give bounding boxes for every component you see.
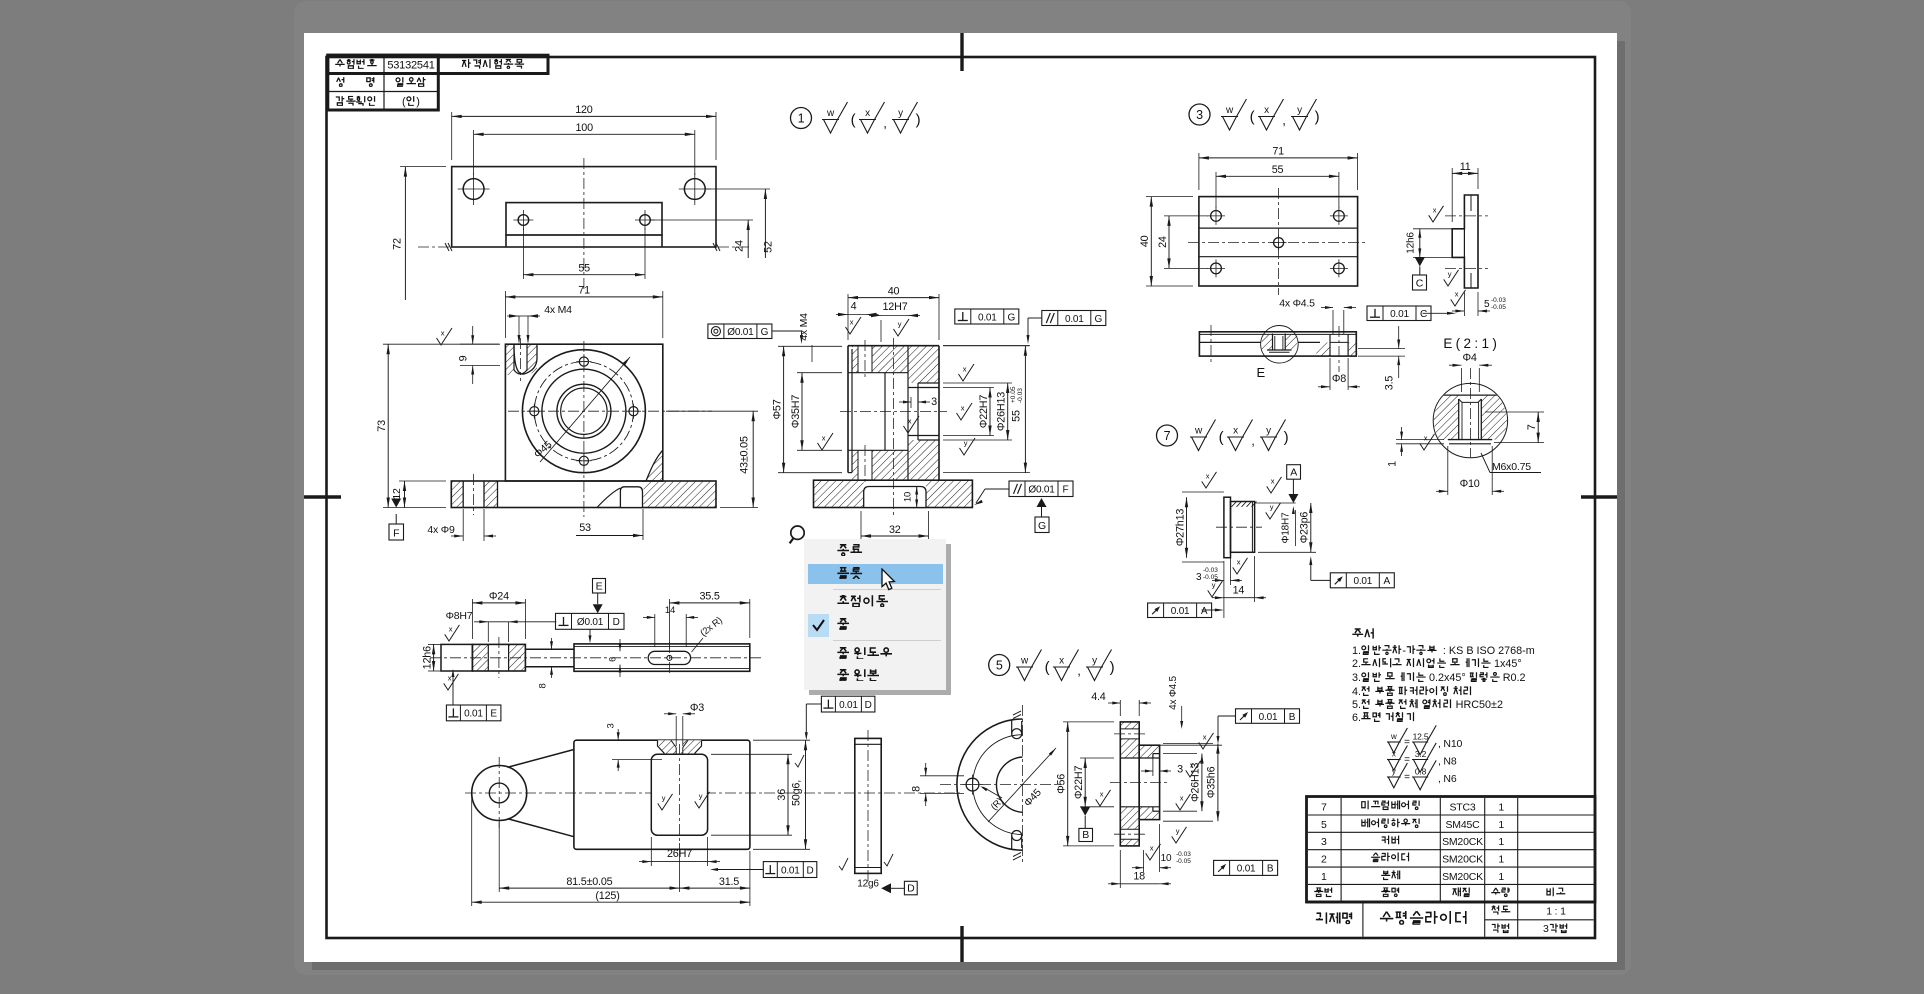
svg-text:11: 11 xyxy=(1460,161,1471,173)
svg-text:120: 120 xyxy=(575,104,593,116)
svg-text:x: x xyxy=(850,318,854,327)
svg-text:-0.05: -0.05 xyxy=(1203,574,1218,581)
svg-text:Φ8: Φ8 xyxy=(1332,373,1346,385)
svg-text:w: w xyxy=(826,108,835,119)
svg-text:0.01: 0.01 xyxy=(1353,576,1372,587)
svg-text:1: 1 xyxy=(1498,871,1504,883)
svg-text:y: y xyxy=(1176,827,1180,836)
svg-text:100: 100 xyxy=(575,122,593,134)
balloon 5 roughness note xyxy=(989,650,1115,681)
svg-text:E: E xyxy=(596,581,603,593)
notes roughness symbols xyxy=(1387,725,1462,789)
svg-text:C: C xyxy=(1416,278,1424,290)
view 7 bushing xyxy=(1148,465,1395,618)
mouse cursor xyxy=(880,568,900,594)
svg-text:4x M4: 4x M4 xyxy=(544,304,572,316)
svg-text:8: 8 xyxy=(538,683,549,688)
svg-text:F: F xyxy=(1063,485,1069,496)
svg-text:73: 73 xyxy=(376,420,388,432)
slider pin side view xyxy=(839,730,917,895)
context menu popup xyxy=(804,539,946,690)
svg-text:9: 9 xyxy=(458,355,470,361)
svg-text:Φ10: Φ10 xyxy=(1460,478,1480,490)
svg-text:C: C xyxy=(1420,309,1427,320)
svg-text:1: 1 xyxy=(1387,461,1399,467)
svg-text:B: B xyxy=(1267,864,1274,875)
svg-text:0.01: 0.01 xyxy=(1259,712,1278,723)
svg-text:12: 12 xyxy=(391,488,403,500)
svg-text:): ) xyxy=(1110,659,1115,676)
svg-text:+0.05: +0.05 xyxy=(1010,386,1017,403)
title block table xyxy=(328,55,548,73)
svg-text:3.5: 3.5 xyxy=(1384,376,1396,391)
svg-text:Φ23p6: Φ23p6 xyxy=(1299,512,1311,544)
detail E circle 2:1 xyxy=(1387,336,1545,495)
notes (korean) xyxy=(1352,628,1376,641)
svg-text:0.01: 0.01 xyxy=(1065,314,1084,325)
svg-text:36: 36 xyxy=(776,789,788,801)
view 3 cover section bar xyxy=(1199,298,1405,391)
svg-text:x: x xyxy=(1150,844,1154,853)
svg-text:Φ22H7: Φ22H7 xyxy=(978,395,990,429)
svg-text:Φ26H13: Φ26H13 xyxy=(996,392,1008,431)
section view housing xyxy=(814,338,973,515)
svg-text:(: ( xyxy=(1219,429,1224,446)
svg-text:24: 24 xyxy=(1157,236,1169,248)
svg-text:x: x xyxy=(1203,733,1207,742)
svg-text:w: w xyxy=(1390,732,1397,741)
svg-text:7: 7 xyxy=(1526,424,1538,430)
svg-text:4x Φ4.5: 4x Φ4.5 xyxy=(1279,298,1315,310)
svg-text:G: G xyxy=(1038,520,1046,532)
svg-text:0.01: 0.01 xyxy=(1237,864,1256,875)
svg-text:x: x xyxy=(1233,426,1238,437)
svg-text:3: 3 xyxy=(931,396,937,408)
svg-text:y: y xyxy=(898,320,902,329)
svg-text:7: 7 xyxy=(1164,429,1171,443)
view 5 cap section xyxy=(1056,675,1300,888)
svg-text:12g6: 12g6 xyxy=(857,879,879,890)
svg-text:0.01: 0.01 xyxy=(464,709,483,720)
svg-text:A: A xyxy=(1290,467,1297,479)
svg-text:71: 71 xyxy=(578,285,590,297)
svg-text:-0.05: -0.05 xyxy=(1491,304,1506,311)
svg-text:12h6: 12h6 xyxy=(1406,232,1417,254)
svg-text:40: 40 xyxy=(1139,235,1151,247)
svg-text:35.5: 35.5 xyxy=(699,591,719,603)
svg-text:53: 53 xyxy=(579,522,591,534)
slider shaft view xyxy=(421,579,762,721)
svg-text:1: 1 xyxy=(1321,871,1327,883)
svg-text:x: x xyxy=(865,108,870,119)
svg-text:E: E xyxy=(1256,365,1265,380)
svg-text:x: x xyxy=(908,417,912,426)
view 1 base plate top view xyxy=(392,104,775,300)
svg-text:x: x xyxy=(449,625,453,634)
svg-text:): ) xyxy=(1284,429,1289,446)
front view bearing housing xyxy=(243,285,758,541)
crop mark bottom xyxy=(960,926,963,962)
svg-text:y: y xyxy=(1297,105,1302,116)
svg-text:14: 14 xyxy=(665,605,675,616)
svg-text:G: G xyxy=(1095,314,1103,325)
svg-text:x: x xyxy=(822,434,826,443)
svg-text:0.01: 0.01 xyxy=(1171,606,1190,617)
svg-text:Φ35h6: Φ35h6 xyxy=(1206,766,1218,798)
svg-text:3: 3 xyxy=(1321,836,1327,848)
roughness note 1 xyxy=(791,102,921,133)
paper halo xyxy=(294,1,1631,975)
svg-text:y: y xyxy=(1392,767,1396,776)
svg-text:Φ57: Φ57 xyxy=(771,399,783,419)
svg-text:F: F xyxy=(393,528,399,540)
svg-text:3: 3 xyxy=(1196,572,1202,583)
svg-text:0.01: 0.01 xyxy=(1390,309,1409,320)
svg-text:A: A xyxy=(1384,576,1391,587)
svg-text:Φ8H7: Φ8H7 xyxy=(446,610,473,622)
view 5 cap half view xyxy=(911,705,1063,865)
svg-text:A: A xyxy=(1201,606,1208,617)
svg-text:y: y xyxy=(699,792,703,801)
zoom magnifier icon xyxy=(790,526,805,543)
svg-text:31.5: 31.5 xyxy=(719,876,739,888)
svg-text:-0.03: -0.03 xyxy=(1491,297,1506,304)
svg-text:D: D xyxy=(907,882,915,894)
svg-text:4x Φ9: 4x Φ9 xyxy=(427,524,455,536)
svg-text:Ø0.01: Ø0.01 xyxy=(727,327,754,338)
svg-text:3: 3 xyxy=(1196,108,1203,122)
svg-text:SM45C: SM45C xyxy=(1445,819,1480,831)
svg-text:-0.03: -0.03 xyxy=(1203,567,1218,574)
svg-text:(: ( xyxy=(1045,659,1050,676)
svg-text:D: D xyxy=(613,617,620,628)
svg-text:24: 24 xyxy=(734,240,746,252)
svg-text:x: x xyxy=(1271,477,1275,486)
svg-text:52: 52 xyxy=(763,241,775,253)
svg-text:B: B xyxy=(1289,712,1296,723)
svg-text:x: x xyxy=(1100,790,1104,799)
svg-text:): ) xyxy=(1315,109,1320,126)
svg-text:,: , xyxy=(1251,433,1254,448)
svg-text:, N6: , N6 xyxy=(1438,773,1457,785)
slider body view xyxy=(465,696,960,906)
svg-text:1: 1 xyxy=(798,112,805,126)
svg-text:x: x xyxy=(448,674,452,683)
svg-text:x: x xyxy=(963,365,967,374)
paper shadow xyxy=(312,41,1625,970)
svg-text:10: 10 xyxy=(903,492,914,502)
svg-text:Φ4: Φ4 xyxy=(1462,352,1476,364)
svg-text:4.4: 4.4 xyxy=(1091,691,1106,703)
crop mark right xyxy=(1581,495,1617,498)
crop mark left xyxy=(304,495,341,498)
svg-text:1: 1 xyxy=(1498,801,1504,813)
svg-text:12h6: 12h6 xyxy=(421,646,433,669)
svg-text:32: 32 xyxy=(889,524,901,536)
svg-text:y: y xyxy=(1266,426,1271,437)
svg-text:40: 40 xyxy=(888,285,900,297)
svg-text:71: 71 xyxy=(1272,146,1284,158)
svg-text:G: G xyxy=(1008,312,1016,323)
svg-text:Φ18H7: Φ18H7 xyxy=(1281,512,1292,544)
svg-text:0.01: 0.01 xyxy=(781,865,800,876)
svg-text:18: 18 xyxy=(1133,870,1145,882)
svg-text:y: y xyxy=(1092,656,1097,667)
svg-text:81.5±0.05: 81.5±0.05 xyxy=(566,876,612,888)
svg-text:5: 5 xyxy=(1321,819,1327,831)
svg-text:14: 14 xyxy=(1233,584,1245,596)
svg-text:Φ27h13: Φ27h13 xyxy=(1174,509,1186,547)
svg-text:3: 3 xyxy=(1177,764,1183,776)
border frame xyxy=(327,57,1596,938)
svg-text:4x M4: 4x M4 xyxy=(798,313,810,341)
svg-text:x: x xyxy=(1392,750,1396,759)
parts list table xyxy=(1307,797,1596,937)
svg-text:): ) xyxy=(916,112,921,129)
svg-text:x: x xyxy=(1059,656,1064,667)
title block labels xyxy=(335,59,377,71)
section view dims xyxy=(771,285,1105,541)
svg-text:, N8: , N8 xyxy=(1438,756,1457,768)
svg-text:12.5: 12.5 xyxy=(1413,732,1429,742)
svg-text:,: , xyxy=(1282,113,1285,128)
svg-text:55: 55 xyxy=(1011,410,1023,422)
svg-text:1: 1 xyxy=(1498,819,1504,831)
svg-text:12H7: 12H7 xyxy=(882,301,907,313)
svg-text:Φ3: Φ3 xyxy=(690,702,704,714)
svg-text:y: y xyxy=(662,794,666,803)
parts table labels xyxy=(1361,800,1421,811)
svg-text:4: 4 xyxy=(851,301,857,313)
svg-text:STC3: STC3 xyxy=(1449,801,1475,813)
svg-text:0.01: 0.01 xyxy=(978,312,997,323)
svg-text:7: 7 xyxy=(1321,801,1327,813)
svg-text:x: x xyxy=(1264,105,1269,116)
svg-text:B: B xyxy=(1082,829,1089,841)
svg-text:-0.03: -0.03 xyxy=(1017,388,1024,403)
svg-text:43±0.05: 43±0.05 xyxy=(739,436,751,474)
svg-text:D: D xyxy=(806,865,813,876)
svg-text:SM20CK: SM20CK xyxy=(1442,836,1483,848)
svg-text:1: 1 xyxy=(1498,854,1504,866)
svg-text:,: , xyxy=(1077,663,1080,678)
svg-text:x: x xyxy=(1190,761,1194,770)
svg-text:Ø0.01: Ø0.01 xyxy=(577,617,604,628)
svg-text:3.2: 3.2 xyxy=(1415,749,1427,759)
svg-text:6: 6 xyxy=(608,657,618,662)
svg-text:y: y xyxy=(1212,581,1216,590)
svg-text:x: x xyxy=(1455,290,1459,299)
svg-text:x: x xyxy=(1424,434,1428,443)
svg-text:4x Φ4.5: 4x Φ4.5 xyxy=(1168,675,1179,709)
svg-text:D: D xyxy=(865,700,872,711)
svg-text:w: w xyxy=(1194,426,1203,437)
svg-text:Φ35H7: Φ35H7 xyxy=(790,395,802,429)
svg-text:5: 5 xyxy=(996,659,1003,673)
svg-text:0.01: 0.01 xyxy=(839,700,858,711)
svg-text:55: 55 xyxy=(578,263,590,275)
svg-text:w: w xyxy=(1225,105,1234,116)
svg-text:x: x xyxy=(1206,472,1210,481)
crop mark top xyxy=(960,33,963,71)
svg-text:E ( 2 : 1 ): E ( 2 : 1 ) xyxy=(1443,336,1496,351)
svg-text:1: 1 xyxy=(1498,836,1504,848)
view 3 cover side view xyxy=(1367,161,1506,320)
svg-text:x: x xyxy=(1433,206,1437,215)
svg-text:,: , xyxy=(883,116,886,131)
svg-text:SM20CK: SM20CK xyxy=(1442,871,1483,883)
svg-text:Φ24: Φ24 xyxy=(489,591,509,603)
svg-text:y: y xyxy=(1448,270,1452,279)
svg-text:(: ( xyxy=(851,112,856,129)
view 3 cover top view xyxy=(1139,146,1368,295)
svg-text:, N10: , N10 xyxy=(1438,738,1462,750)
svg-text:E: E xyxy=(490,709,497,720)
svg-text:-0.03: -0.03 xyxy=(1176,851,1191,858)
svg-text:M6x0.75: M6x0.75 xyxy=(1492,461,1531,473)
svg-text:53132541: 53132541 xyxy=(387,60,434,72)
svg-text:y: y xyxy=(1270,503,1274,512)
svg-text:5: 5 xyxy=(1484,299,1490,310)
svg-text:y: y xyxy=(964,439,968,448)
concentricity frame G xyxy=(708,324,803,344)
svg-text:0.8: 0.8 xyxy=(1415,767,1427,777)
svg-text:55: 55 xyxy=(1272,164,1284,176)
svg-text:Φ56: Φ56 xyxy=(1056,774,1068,794)
svg-text:Φ22H7: Φ22H7 xyxy=(1073,765,1085,799)
svg-text:x: x xyxy=(441,329,445,338)
svg-text:3: 3 xyxy=(606,723,617,728)
svg-text:x: x xyxy=(1237,558,1241,567)
balloon 3 roughness note xyxy=(1189,99,1320,130)
svg-text:50g6,: 50g6, xyxy=(791,780,803,806)
svg-text:-0.05: -0.05 xyxy=(1176,858,1191,865)
svg-text:Ø0.01: Ø0.01 xyxy=(1028,485,1055,496)
svg-text:x: x xyxy=(961,404,965,413)
svg-text:8: 8 xyxy=(911,786,923,792)
svg-text:x: x xyxy=(1180,794,1184,803)
white paper xyxy=(304,33,1617,962)
svg-text:w: w xyxy=(1020,656,1029,667)
svg-text:(: ( xyxy=(1250,109,1255,126)
svg-text:G: G xyxy=(761,327,769,338)
svg-text:=: = xyxy=(1404,772,1410,783)
svg-text:10: 10 xyxy=(1161,853,1172,864)
svg-text:(125): (125) xyxy=(595,890,619,902)
svg-text:2: 2 xyxy=(1321,854,1327,866)
svg-text:y: y xyxy=(898,108,903,119)
svg-text:72: 72 xyxy=(392,238,404,250)
svg-text:1 : 1: 1 : 1 xyxy=(1546,906,1566,918)
svg-text:SM20CK: SM20CK xyxy=(1442,854,1483,866)
balloon 7 roughness note xyxy=(1157,420,1289,451)
